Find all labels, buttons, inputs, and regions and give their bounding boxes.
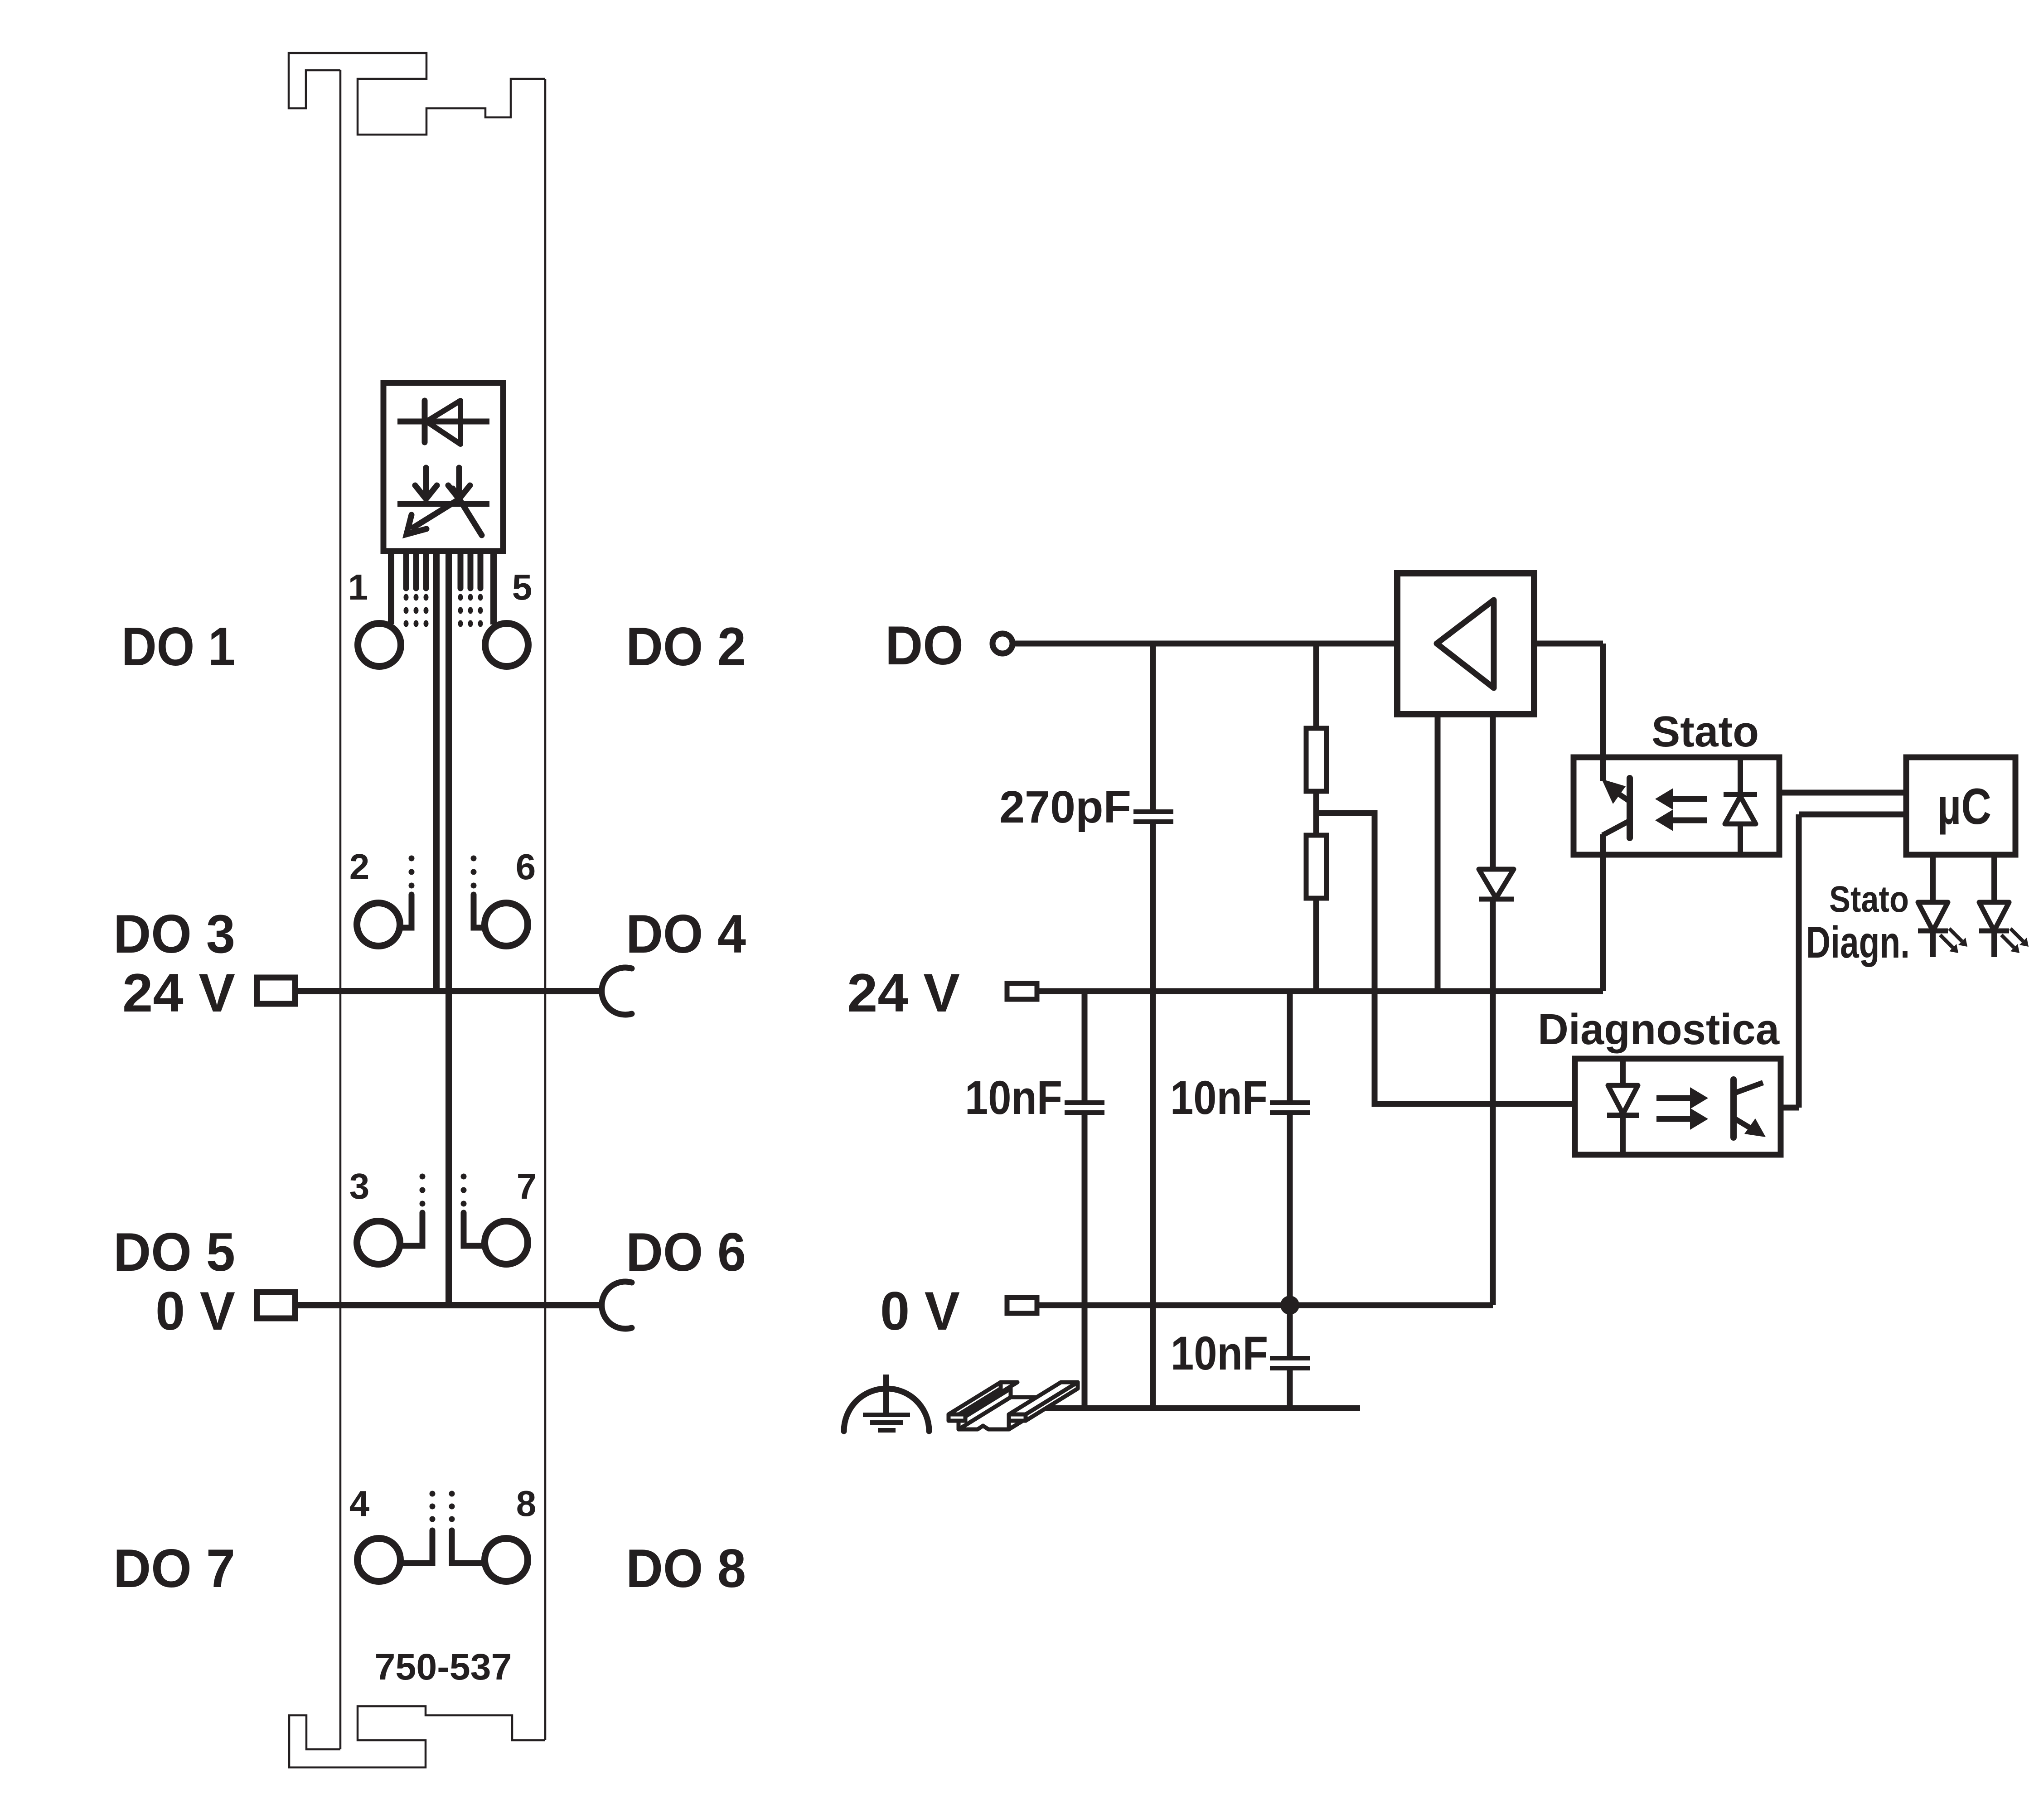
svg-text:10nF: 10nF: [1171, 1327, 1268, 1380]
svg-text:DO 1: DO 1: [121, 616, 235, 677]
svg-text:Diagn.: Diagn.: [1806, 917, 1910, 967]
svg-text:24 V: 24 V: [122, 963, 235, 1023]
svg-text:DO: DO: [885, 615, 964, 676]
svg-text:10nF: 10nF: [965, 1071, 1062, 1124]
svg-text:DO 3: DO 3: [113, 904, 235, 964]
svg-text:DO 6: DO 6: [626, 1222, 746, 1283]
svg-text:DO 5: DO 5: [113, 1222, 235, 1283]
svg-text:270pF: 270pF: [999, 782, 1131, 833]
svg-text:DO 2: DO 2: [626, 616, 746, 677]
svg-text:8: 8: [516, 1483, 537, 1524]
svg-text:0 V: 0 V: [155, 1281, 235, 1341]
svg-text:DO 4: DO 4: [626, 904, 746, 964]
svg-text:Stato: Stato: [1651, 707, 1759, 756]
svg-text:3: 3: [349, 1166, 370, 1206]
svg-text:2: 2: [349, 847, 370, 887]
svg-text:DO 8: DO 8: [626, 1538, 746, 1599]
svg-text:µC: µC: [1937, 778, 1991, 835]
svg-text:24 V: 24 V: [847, 963, 960, 1023]
svg-text:4: 4: [349, 1483, 370, 1524]
svg-text:6: 6: [516, 847, 536, 887]
svg-text:750-537: 750-537: [375, 1646, 512, 1688]
svg-text:Stato: Stato: [1829, 879, 1909, 920]
svg-text:DO 7: DO 7: [113, 1538, 235, 1599]
svg-text:Diagnostica: Diagnostica: [1538, 1005, 1780, 1054]
svg-text:10nF: 10nF: [1170, 1071, 1268, 1124]
svg-text:0 V: 0 V: [880, 1281, 960, 1341]
svg-text:7: 7: [517, 1166, 537, 1206]
svg-text:1: 1: [348, 567, 368, 607]
svg-text:5: 5: [512, 567, 533, 607]
